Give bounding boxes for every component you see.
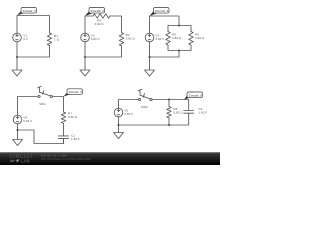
wire bottom rail circuit 2 — [85, 42, 122, 57]
svg-text:1.82 F: 1.82 F — [198, 111, 207, 115]
ground circuit 4 — [13, 130, 23, 146]
voltage source V3 — [145, 33, 165, 42]
svg-text:http://circuitlab.com/c/29h7sd: http://circuitlab.com/c/29h7sd52mk2k — [41, 157, 91, 161]
svg-text:5.82 V: 5.82 V — [124, 112, 134, 116]
switch SW2 — [138, 89, 152, 109]
svg-text:Circuit_5: Circuit_5 — [189, 93, 203, 97]
switch SW1 — [38, 86, 53, 106]
node junction circuit 5 top R8 — [168, 98, 170, 100]
wire top rail circuit 3 — [150, 16, 192, 33]
svg-text:5.82 Ω: 5.82 Ω — [173, 111, 183, 115]
svg-text:SW1: SW1 — [39, 102, 46, 106]
wire bottom rail circuit 1 — [17, 42, 50, 57]
node junction circuit 3 bottom left — [148, 56, 150, 58]
svg-text:5.82 V: 5.82 V — [155, 37, 165, 41]
ground circuit 5 — [114, 125, 124, 139]
svg-text:1 Ω: 1 Ω — [54, 38, 60, 42]
node junction circuit 5 bottom R8 — [168, 124, 170, 126]
voltage source V5 — [114, 108, 134, 117]
label Circuit_1 — [17, 8, 37, 16]
svg-text:3.82 Ω: 3.82 Ω — [172, 36, 182, 40]
voltage source V4 — [13, 115, 33, 124]
svg-text:LAB: LAB — [21, 158, 30, 163]
node junction circuit 5 bottom left — [117, 124, 119, 126]
resistor R4 (horizontal) — [93, 14, 110, 26]
ground circuit 3 — [145, 57, 155, 76]
wire top rail circuit 2 — [85, 16, 122, 33]
capacitor C2 — [184, 107, 208, 115]
label Circuit_2 — [85, 8, 105, 17]
node junction circuit 3 parallel bottom — [178, 49, 180, 51]
svg-text:5.82 V: 5.82 V — [23, 119, 33, 123]
svg-text:SW2: SW2 — [141, 105, 148, 109]
ground circuit 1 — [12, 57, 22, 76]
label Circuit_4 — [64, 89, 83, 97]
wire top rail circuit 1 — [17, 16, 50, 34]
svg-text:Circuit_1: Circuit_1 — [23, 9, 37, 13]
svg-text:Circuit_2: Circuit_2 — [91, 9, 105, 13]
capacitor C1 — [59, 124, 80, 144]
resistor R7 — [61, 112, 78, 124]
wire top rail circuit 4 — [18, 97, 64, 116]
wire R8 top stub — [168, 100, 170, 107]
resistor R5 — [166, 32, 182, 46]
node junction circuit 3 top — [178, 24, 180, 26]
svg-text:3.82 Ω: 3.82 Ω — [126, 37, 136, 41]
node junction circuit 1 bottom — [16, 56, 18, 58]
ground circuit 2 — [80, 57, 90, 76]
svg-text:3.82 Ω: 3.82 Ω — [195, 36, 205, 40]
label Circuit_5 — [184, 92, 203, 100]
footer text — [41, 153, 91, 160]
node junction circuit 4 bottom — [16, 129, 18, 131]
svg-text:1.82 F: 1.82 F — [71, 137, 80, 141]
svg-text:Circuit_4: Circuit_4 — [69, 90, 83, 94]
svg-text:5.82 Ω: 5.82 Ω — [68, 115, 78, 119]
wire bottom rail circuit 5 — [119, 113, 189, 125]
resistor R8 — [167, 107, 183, 119]
wire top rail circuit 5 — [119, 100, 189, 111]
resistor R6 — [189, 32, 205, 46]
label Circuit_3 — [150, 8, 170, 17]
CircuitLab logo — [10, 154, 35, 164]
wire bottom rail circuit 3 — [150, 42, 192, 57]
svg-text:Circuit_3: Circuit_3 — [155, 9, 169, 13]
resistor R2 — [119, 33, 135, 47]
voltage source V2 — [81, 33, 101, 42]
resistor R1 — [47, 33, 59, 46]
wire bottom rail circuit 4 — [18, 124, 64, 144]
voltage source V1 — [13, 33, 29, 42]
svg-text:3.82 Ω: 3.82 Ω — [94, 22, 104, 26]
node junction circuit 2 bottom — [84, 56, 86, 58]
svg-text:5.82 V: 5.82 V — [91, 37, 101, 41]
